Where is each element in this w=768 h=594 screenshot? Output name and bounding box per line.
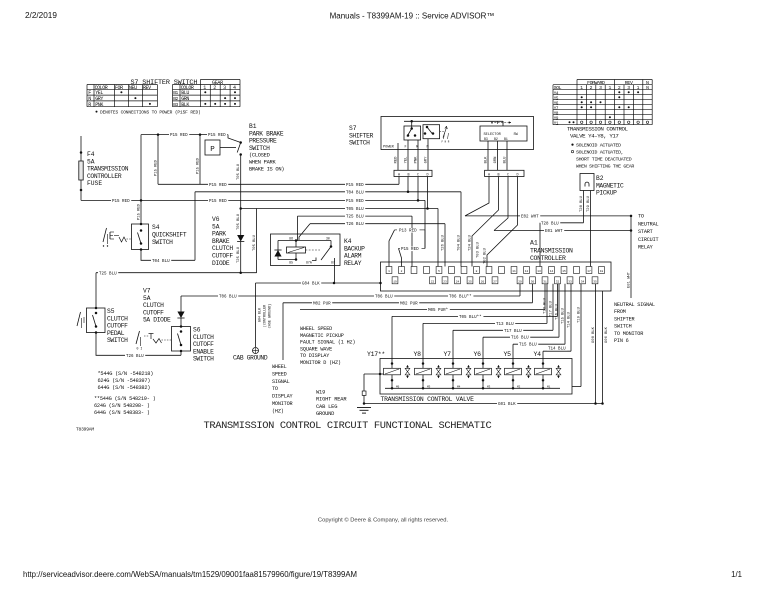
diode V6 park brake clutch cutoff diode [212, 155, 244, 274]
svg-text:WHEEL: WHEEL [272, 364, 287, 370]
svg-text:SOLENOID ACTUATED,: SOLENOID ACTUATED, [576, 150, 623, 156]
svg-text:T26 BLU: T26 BLU [346, 223, 364, 227]
wire T26 BLU bus [299, 222, 445, 267]
svg-text:T25 BLU: T25 BLU [346, 216, 364, 220]
wire T16 BLU to Y6 solenoid [483, 284, 560, 359]
svg-text:3: 3 [599, 85, 602, 91]
wire G08 BLK ground [592, 284, 597, 405]
connector A1 bottom pin row [392, 277, 598, 284]
svg-text:R: R [88, 102, 91, 108]
svg-text:SWITCH: SWITCH [249, 145, 270, 152]
svg-text:WHEN SHIFTING THE GEAR: WHEN SHIFTING THE GEAR [576, 164, 634, 170]
svg-text:BLK: BLK [485, 156, 489, 164]
svg-text:P15 RED: P15 RED [208, 134, 226, 138]
svg-text:TO DISPLAY: TO DISPLAY [300, 353, 330, 359]
svg-text:B3: B3 [484, 137, 488, 141]
svg-text:14: 14 [550, 270, 554, 273]
svg-text:CUTOFF: CUTOFF [107, 323, 128, 330]
svg-text:P15 RED: P15 RED [197, 157, 201, 174]
svg-text:E02 WHT: E02 WHT [521, 215, 539, 219]
page header date [25, 11, 57, 20]
svg-text:CLUTCH: CLUTCH [143, 302, 164, 309]
svg-text:CUTOFF: CUTOFF [212, 253, 233, 260]
wire B2 leads T28/T29 BLU [540, 191, 591, 267]
svg-text:13: 13 [537, 270, 541, 273]
svg-text:T14 BLU: T14 BLU [548, 347, 566, 351]
svg-text:M02 PUR: M02 PUR [313, 302, 331, 306]
svg-text:TRANSMISSION CONTROL: TRANSMISSION CONTROL [567, 125, 629, 132]
svg-text:F: F [405, 146, 407, 150]
svg-text:CLUTCH: CLUTCH [212, 245, 233, 252]
svg-text:SWITCH: SWITCH [349, 140, 370, 147]
wire connector2 E02 WHT to neutral start relay [465, 177, 632, 220]
svg-text:T15 BLU: T15 BLU [519, 344, 537, 348]
svg-text:5A: 5A [212, 223, 220, 230]
svg-text:T14 BLU: T14 BLU [568, 311, 572, 328]
svg-text:SHORT TIME DEACTUATED: SHORT TIME DEACTUATED [576, 157, 632, 163]
svg-text:T04 BLU: T04 BLU [152, 260, 170, 264]
svg-text:T26 BLU: T26 BLU [126, 355, 144, 359]
svg-text:87: 87 [331, 261, 335, 265]
wire T04 BLU bus [195, 190, 461, 267]
svg-text:CIRCUIT: CIRCUIT [638, 237, 658, 243]
table transmission control valve solenoid chart [553, 80, 652, 127]
svg-text:T24 BLU: T24 BLU [469, 234, 473, 251]
svg-text:B2: B2 [596, 175, 604, 182]
svg-text:WHEN PARK: WHEN PARK [249, 160, 276, 166]
svg-text:T28 BLU: T28 BLU [580, 195, 584, 212]
legend transmission control valve solenoids [567, 125, 634, 169]
svg-text:Y7: Y7 [444, 351, 452, 358]
wire T19 BLU to valve return [572, 284, 582, 387]
svg-text:NEUTRAL: NEUTRAL [638, 221, 658, 227]
svg-text:1: 1 [388, 270, 390, 273]
page footer copyright [318, 517, 449, 524]
svg-text:N: N [646, 80, 649, 86]
solenoid Y6 shift solenoid [474, 351, 501, 390]
switch B1 park brake pressure switch [197, 123, 285, 184]
diode V7 clutch cutoff diode [143, 288, 185, 327]
svg-text:(CONTROLLER: (CONTROLLER [263, 305, 268, 327]
svg-text:T05 BLU: T05 BLU [346, 208, 364, 212]
page footer url [23, 570, 357, 579]
svg-text:FOR: FOR [115, 85, 123, 91]
svg-text:S5: S5 [107, 308, 115, 315]
svg-text:T05 BLU: T05 BLU [237, 213, 241, 230]
svg-text:Y6: Y6 [474, 351, 482, 358]
wire valve common rail [385, 387, 560, 389]
wire E01 WHT down to monitor note [628, 216, 632, 298]
switch S5 clutch cutoff pedal switch [77, 273, 128, 345]
wire connector2 T02 BLU to controller [477, 177, 518, 267]
svg-text:V6: V6 [212, 216, 220, 223]
wire P15 RED drop to bus [155, 135, 159, 185]
svg-text:S7: S7 [349, 125, 357, 132]
solenoid Y17 shift solenoid [367, 351, 410, 390]
svg-text:WHEEL SPEED: WHEEL SPEED [300, 326, 332, 332]
svg-text:POWER: POWER [383, 146, 395, 150]
wire valve supply stub [362, 373, 383, 405]
svg-text:T17 BLU: T17 BLU [504, 330, 522, 334]
svg-text:FROM: FROM [614, 309, 626, 315]
wire K4 87 to ground bus [334, 266, 336, 284]
node P15 RED top distribution [157, 133, 202, 136]
svg-text:W19: W19 [316, 390, 325, 396]
svg-text:(CLOSED: (CLOSED [249, 153, 270, 159]
svg-text:T17 BLU: T17 BLU [550, 300, 554, 317]
svg-text:PRESSURE: PRESSURE [249, 138, 277, 145]
svg-text:T04 BLU: T04 BLU [346, 191, 364, 195]
svg-text:P15 RED: P15 RED [346, 184, 364, 188]
svg-text:85: 85 [289, 260, 293, 264]
svg-text:START: START [638, 229, 653, 235]
wire T13 BLU to Y8 solenoid [423, 284, 548, 359]
svg-text:TRANSMISSION: TRANSMISSION [87, 166, 129, 173]
svg-text:M3: M3 [487, 385, 491, 388]
svg-text:TO: TO [272, 386, 278, 392]
svg-text:M2: M2 [517, 385, 521, 388]
svg-text:G04 BLK: G04 BLK [259, 307, 263, 322]
wire connector2 T24 BLU to controller [469, 177, 499, 267]
svg-text:2: 2 [590, 85, 593, 91]
svg-text:QUICKSHIFT: QUICKSHIFT [152, 232, 187, 239]
svg-text:G01 BLK: G01 BLK [498, 403, 516, 407]
wire G01 BLK ground bus [364, 402, 603, 407]
svg-text:P15 RED: P15 RED [401, 248, 419, 252]
svg-text:5A: 5A [143, 295, 151, 302]
svg-text:S6: S6 [193, 327, 201, 334]
svg-text:T06 BLU**: T06 BLU** [449, 295, 472, 300]
wire T17 BLU to Y7 solenoid [453, 284, 554, 359]
page header title [330, 12, 495, 21]
svg-text:G04 BLK: G04 BLK [302, 283, 320, 287]
svg-text:8: 8 [476, 270, 478, 273]
svg-text:BRAKE: BRAKE [212, 238, 230, 245]
label P13 RED / P15 RED pin leads [389, 228, 425, 267]
page footer page number [731, 570, 742, 579]
svg-text:Y4: Y4 [554, 92, 559, 96]
svg-text:PARK: PARK [212, 231, 226, 238]
svg-text:3: 3 [223, 85, 226, 91]
svg-text:24: 24 [456, 280, 460, 283]
svg-text:23: 23 [443, 280, 447, 283]
svg-text:1/1: 1/1 [731, 570, 742, 579]
svg-text:Y5: Y5 [504, 351, 512, 358]
svg-text:26: 26 [481, 280, 485, 283]
svg-text:PNK: PNK [415, 156, 419, 164]
svg-text:SW: SW [514, 133, 519, 137]
wire M02 PUR wheel speed signal [283, 284, 533, 360]
svg-text:T19 BLU: T19 BLU [578, 306, 582, 323]
svg-text:SWITCH: SWITCH [107, 337, 128, 344]
svg-text:644G (S/N 548383- ): 644G (S/N 548383- ) [94, 410, 150, 416]
svg-text:22: 22 [431, 280, 435, 283]
svg-text:Manuals - T8399AM-19 :: Servic: Manuals - T8399AM-19 :: Service ADVISOR™ [330, 12, 495, 21]
svg-text:TO MONITOR: TO MONITOR [614, 331, 643, 337]
wire connector2 E01 WHT to neutral start relay [494, 177, 632, 235]
ground W19 right rear cab leg ground [316, 390, 371, 418]
svg-text:M1: M1 [547, 385, 551, 388]
svg-text:B2: B2 [173, 96, 178, 102]
svg-text:RELAY: RELAY [344, 260, 362, 267]
wire M05 PUR wheel speed fault signal [300, 284, 545, 313]
svg-text:T25 BLU: T25 BLU [237, 246, 241, 263]
valve block transmission control valve Y4-Y17 [380, 359, 572, 395]
svg-text:BLK: BLK [181, 102, 189, 108]
svg-text:B1: B1 [504, 137, 508, 141]
svg-text:T03 BLU: T03 BLU [477, 241, 481, 258]
label to neutral start circuit relay [638, 214, 658, 251]
svg-text:P15 RED: P15 RED [209, 184, 227, 188]
svg-text:30: 30 [326, 236, 330, 240]
svg-text:T06 BLU: T06 BLU [375, 296, 393, 300]
svg-text:P15 RED: P15 RED [155, 159, 159, 176]
svg-text:P15 RED: P15 RED [346, 200, 364, 204]
svg-text:M6: M6 [396, 385, 400, 388]
svg-text:G06 BLK: G06 BLK [605, 326, 609, 343]
svg-text:TRANSMISSION CONTROL CIRCUIT F: TRANSMISSION CONTROL CIRCUIT FUNCTIONAL … [204, 420, 492, 432]
svg-text:T15 BLU: T15 BLU [562, 307, 566, 324]
svg-text:Y5: Y5 [554, 97, 559, 101]
svg-text:PEDAL: PEDAL [107, 330, 125, 337]
svg-text:PNK: PNK [95, 102, 103, 108]
svg-text:B1: B1 [249, 123, 257, 130]
ground cab ground symbol [233, 348, 268, 362]
svg-text:MAGNETIC PICKUP: MAGNETIC PICKUP [300, 333, 344, 339]
svg-text:REV: REV [625, 80, 633, 86]
switch S7 shifter switch assembly [349, 117, 534, 150]
svg-text:GROUND: GROUND [316, 411, 334, 417]
svg-text:M05 PUR*: M05 PUR* [428, 308, 448, 313]
svg-text:P15 RED: P15 RED [138, 203, 142, 220]
wire T15 BLU to Y5 solenoid [513, 284, 566, 359]
svg-text:DENOTES CONNECTIONS TO POWER (: DENOTES CONNECTIONS TO POWER (P15F RED) [100, 109, 201, 115]
label serial number applicability list [94, 371, 156, 416]
svg-text:PARK BRAKE: PARK BRAKE [249, 130, 284, 137]
svg-text:624G (S/N 548298- ): 624G (S/N 548298- ) [94, 403, 150, 409]
svg-text:15: 15 [562, 270, 566, 273]
svg-text:624G (S/N -548397): 624G (S/N -548397) [98, 378, 151, 384]
table S7 shifter switch color/position [87, 85, 157, 108]
svg-text:REV: REV [143, 85, 151, 91]
svg-text:35: 35 [593, 280, 597, 283]
svg-text:2: 2 [618, 85, 621, 91]
label wheel speed signal to display monitor [272, 364, 293, 414]
table gear/solenoid color [173, 80, 241, 108]
svg-text:F N R: F N R [442, 140, 450, 143]
svg-text:PIN 6: PIN 6 [614, 338, 629, 344]
svg-text:T05 BLU: T05 BLU [253, 234, 257, 251]
svg-text:SHIFTER: SHIFTER [349, 132, 374, 139]
svg-text:T16 BLU: T16 BLU [556, 303, 560, 320]
connector S7 switch side A B C D [394, 170, 432, 177]
solenoid Y4 shift solenoid [534, 351, 561, 390]
svg-text:A1: A1 [530, 240, 538, 247]
svg-text:Y9: Y9 [554, 117, 559, 121]
svg-text:M5: M5 [427, 385, 431, 388]
svg-text:SOLENOID ACTUATED: SOLENOID ACTUATED [576, 143, 621, 149]
svg-text:T26 BLU: T26 BLU [442, 234, 446, 251]
svg-text:**544G (S/N 548219- ): **544G (S/N 548219- ) [94, 396, 156, 402]
svg-text:3: 3 [627, 85, 630, 91]
svg-text:TRANSMISSION CONTROL VALVE: TRANSMISSION CONTROL VALVE [381, 396, 475, 403]
svg-text:CAB LEG: CAB LEG [316, 404, 337, 410]
svg-text:NEU: NEU [129, 85, 137, 91]
svg-text:T13 BLU: T13 BLU [496, 323, 514, 327]
svg-text:12: 12 [525, 270, 529, 273]
svg-text:5A: 5A [87, 158, 95, 165]
svg-text:SIGNAL: SIGNAL [272, 379, 290, 385]
svg-text:SPEED: SPEED [272, 371, 287, 377]
svg-text:*544G (S/N -548218): *544G (S/N -548218) [98, 371, 154, 377]
svg-text:RED: RED [395, 156, 399, 164]
solenoid Y8 shift solenoid [414, 351, 441, 390]
svg-text:TO: TO [638, 214, 644, 220]
svg-text:ALARM: ALARM [344, 253, 362, 260]
controller A1 transmission controller [381, 240, 612, 292]
svg-text:86: 86 [289, 236, 293, 240]
svg-text:CUTOFF: CUTOFF [143, 309, 164, 316]
svg-text:RELAY: RELAY [638, 245, 654, 251]
svg-text:1: 1 [637, 85, 640, 91]
wire F4 to P15 RED junction [81, 133, 228, 204]
label transmission control valve [381, 396, 475, 403]
connector S7 selector side A B C D [485, 170, 524, 177]
wire T04 BLU from S4 [141, 192, 195, 264]
svg-text:SWITCH: SWITCH [152, 239, 173, 246]
fuse F4 transmission controller fuse [79, 136, 129, 200]
svg-text:CONTROLLER: CONTROLLER [530, 255, 566, 262]
switch S4 quickshift switch [103, 200, 187, 250]
svg-text:T13 BLU: T13 BLU [544, 297, 548, 314]
svg-text:Y7: Y7 [554, 107, 559, 111]
svg-text:MONITOR D (HZ): MONITOR D (HZ) [300, 360, 341, 366]
svg-text:Y8: Y8 [414, 351, 422, 358]
svg-text:P13 RED: P13 RED [399, 229, 417, 233]
svg-text:B1: B1 [173, 90, 178, 96]
svg-text:(HZ): (HZ) [272, 408, 284, 414]
svg-text:2: 2 [213, 85, 216, 91]
svg-text:T04 BLU: T04 BLU [458, 234, 462, 251]
svg-text:Y17**: Y17** [367, 351, 385, 358]
svg-text:SOL: SOL [554, 85, 562, 91]
svg-text:M02 PUR: M02 PUR [400, 302, 418, 306]
svg-text:18: 18 [600, 270, 604, 273]
svg-text:B2: B2 [494, 137, 498, 141]
svg-text:Y4: Y4 [534, 351, 542, 358]
svg-text:Copyright © Deere & Company, a: Copyright © Deere & Company, all rights … [318, 517, 449, 524]
svg-text:0 I: 0 I [137, 347, 143, 351]
svg-text:DIODE: DIODE [212, 260, 230, 267]
svg-text:M4: M4 [457, 385, 461, 388]
svg-text:S4: S4 [152, 224, 160, 231]
svg-text:1: 1 [203, 85, 206, 91]
wire T25 BLU bus [298, 214, 413, 266]
svg-text:T05 BLU**: T05 BLU** [459, 315, 482, 320]
svg-text:P15 RED: P15 RED [112, 200, 130, 204]
svg-text:CLUTCH: CLUTCH [107, 315, 128, 322]
svg-text:MAGNETIC: MAGNETIC [596, 182, 624, 189]
svg-text:30: 30 [531, 280, 535, 283]
svg-text:5A DIODE: 5A DIODE [143, 317, 171, 324]
wire T26 BLU S5 to S6 [96, 333, 181, 359]
wire P15 RED lower bus [141, 199, 425, 249]
svg-text:25: 25 [468, 280, 472, 283]
svg-text:FAULT SIGNAL (1 Hz): FAULT SIGNAL (1 Hz) [300, 340, 355, 346]
wire G06 BLK ground [601, 291, 609, 405]
label wheel speed magnetic pickup fault signal [300, 326, 355, 366]
svg-text:1: 1 [580, 85, 583, 91]
svg-text:N: N [646, 85, 649, 91]
svg-text:SHIFTER: SHIFTER [614, 316, 634, 322]
node K4 coil feed from T25/T26 [297, 236, 299, 241]
svg-text:SWITCH: SWITCH [614, 324, 632, 330]
svg-text:87A: 87A [306, 261, 312, 265]
svg-text:F4: F4 [87, 151, 95, 158]
wire S7 outputs to connector [395, 139, 508, 171]
svg-text:GRY: GRY [425, 156, 429, 164]
svg-text:B3: B3 [173, 102, 178, 108]
svg-text:K4: K4 [344, 238, 352, 245]
switch S6 clutch cutoff enable switch [136, 325, 214, 362]
svg-text:33: 33 [568, 280, 572, 283]
svg-text:T05 BLU: T05 BLU [237, 163, 241, 180]
svg-text:T8399AM: T8399AM [76, 427, 94, 433]
svg-text:NEUTRAL SIGNAL: NEUTRAL SIGNAL [614, 302, 655, 308]
svg-text:29: 29 [518, 280, 522, 283]
svg-text:2: 2 [401, 270, 403, 273]
svg-text:T02 BLU: T02 BLU [484, 247, 488, 264]
svg-text:644G (S/N -548382): 644G (S/N -548382) [98, 385, 151, 391]
svg-text:TRANSMISSION: TRANSMISSION [530, 247, 573, 254]
svg-text:Y1: Y1 [554, 122, 559, 126]
wire T25 BLU lower run [96, 209, 257, 277]
svg-text:ENABLE: ENABLE [193, 348, 214, 355]
connector A1 top pin row [386, 267, 604, 274]
svg-text:SWITCH: SWITCH [193, 356, 214, 363]
svg-text:BRAKE IS ON): BRAKE IS ON) [249, 167, 284, 173]
svg-text:T25 BLU: T25 BLU [99, 272, 117, 276]
svg-text:E01 WHT: E01 WHT [628, 271, 632, 288]
svg-text:CLUTCH: CLUTCH [193, 334, 214, 341]
svg-text:Y8: Y8 [554, 112, 559, 116]
wire rotated labels above A1 pins [442, 234, 462, 251]
svg-text:V7: V7 [143, 288, 151, 295]
svg-text:4: 4 [233, 85, 236, 91]
wire G04 BLK controller case ground [256, 281, 382, 347]
wire P15 RED bus [158, 182, 399, 187]
svg-text:1: 1 [608, 85, 611, 91]
svg-text:P15 RED: P15 RED [209, 200, 227, 204]
svg-text:BLU: BLU [504, 156, 508, 164]
svg-text:2/2/2019: 2/2/2019 [25, 11, 57, 20]
wire T05 BLU to Y17 solenoid [392, 284, 558, 359]
svg-text:CASE GROUND): CASE GROUND) [268, 304, 273, 328]
svg-text:5: 5 [438, 270, 440, 273]
svg-text:DISPLAY: DISPLAY [272, 394, 293, 400]
svg-text:T29 BLU: T29 BLU [587, 195, 591, 212]
svg-text:T16 BLU: T16 BLU [511, 337, 529, 341]
svg-text:P: P [210, 146, 215, 154]
svg-text:MONITOR: MONITOR [272, 401, 292, 407]
svg-text:G08 BLK: G08 BLK [592, 326, 596, 343]
table footnote denotes connections to power [96, 109, 201, 115]
label neutral signal from shifter switch [614, 302, 655, 344]
sensor B2 magnetic pickup [580, 174, 624, 197]
wire T06 BLU [181, 284, 520, 300]
relay K4 backup alarm relay [271, 234, 366, 267]
label schematic title [204, 420, 492, 432]
